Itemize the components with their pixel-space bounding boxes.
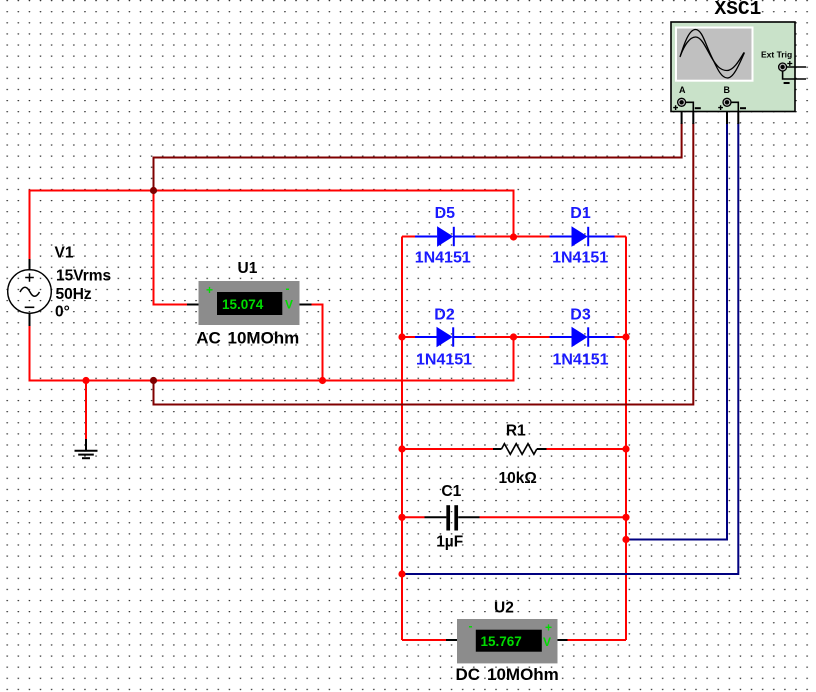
oscilloscope XSC1 (671, 22, 806, 112)
svg-text:D1: D1 (570, 205, 591, 222)
wire scope B+ to output node (navy) (626, 123, 727, 540)
svg-text:-: - (286, 282, 290, 296)
capacitor C1 (425, 505, 480, 530)
svg-text:XSC1: XSC1 (715, 0, 762, 20)
svg-text:+: + (545, 621, 552, 635)
svg-text:V: V (543, 635, 551, 649)
V1 labels (55, 244, 112, 320)
svg-text:-: - (469, 619, 473, 633)
svg-text:D5: D5 (435, 205, 456, 222)
svg-text:0°: 0° (55, 303, 70, 320)
svg-text:C1: C1 (441, 483, 461, 500)
svg-text:B: B (724, 85, 731, 95)
diode D2 (415, 327, 476, 347)
wire V1 bottom rail y=380 to bridge lower junction (30, 326, 514, 381)
svg-text:1N4151: 1N4151 (552, 250, 608, 267)
svg-text:DC10MOhm: DC10MOhm (456, 665, 559, 684)
svg-text:U2: U2 (494, 600, 514, 617)
svg-text:15.074: 15.074 (222, 297, 264, 312)
svg-text:1µF: 1µF (436, 534, 463, 551)
wire bottom diode row segments (402, 336, 626, 338)
svg-text:AC10MOhm: AC10MOhm (196, 328, 299, 347)
diode D1 (550, 226, 615, 246)
diode D5 (415, 226, 476, 246)
diode D3 (550, 327, 615, 347)
wire scope A- to bottom rail (dark red) (154, 123, 694, 405)
wire U1 right pin down to bottom rail (312, 305, 323, 381)
junction node dots (dark red) (150, 187, 157, 384)
wire bridge right vertical x=626 (625, 237, 627, 641)
svg-text:15Vrms: 15Vrms (56, 267, 111, 284)
svg-text:D2: D2 (434, 306, 455, 323)
wire ground drop (85, 381, 87, 441)
svg-text:A: A (679, 85, 686, 95)
wire U2 row (402, 639, 626, 641)
multimeter U1 (187, 281, 312, 325)
junction node dots (red) (82, 233, 629, 577)
wire V1 top to node, across y=190, down to bridge top (30, 191, 514, 260)
wire node to U1 left pin (154, 191, 188, 305)
wire scope B- to left vertical (navy) (402, 123, 738, 574)
wire C1 row (402, 516, 626, 518)
wire bridge left vertical x=402 (401, 237, 403, 641)
ground (75, 439, 98, 458)
svg-text:D3: D3 (570, 306, 591, 323)
svg-text:V1: V1 (55, 244, 74, 261)
svg-text:+: + (206, 283, 213, 297)
wire R1 row (402, 448, 626, 450)
svg-text:V: V (285, 298, 293, 312)
svg-text:1N4151: 1N4151 (415, 250, 471, 267)
svg-text:10kΩ: 10kΩ (499, 470, 537, 487)
svg-text:R1: R1 (506, 423, 526, 440)
AC source V1 (8, 259, 52, 326)
svg-text:1N4151: 1N4151 (416, 352, 472, 369)
wire scope A+ to node A (dark red) (154, 123, 682, 191)
resistor R1 (493, 444, 547, 455)
svg-text:15.767: 15.767 (481, 634, 522, 649)
svg-text:50Hz: 50Hz (56, 286, 92, 303)
wire top diode row segments (402, 236, 626, 238)
svg-text:Ext Trig: Ext Trig (761, 50, 792, 60)
svg-text:1N4151: 1N4151 (553, 352, 609, 369)
svg-text:U1: U1 (238, 260, 258, 277)
scope pin stubs (black) (682, 112, 739, 125)
multimeter U2 (446, 619, 568, 663)
